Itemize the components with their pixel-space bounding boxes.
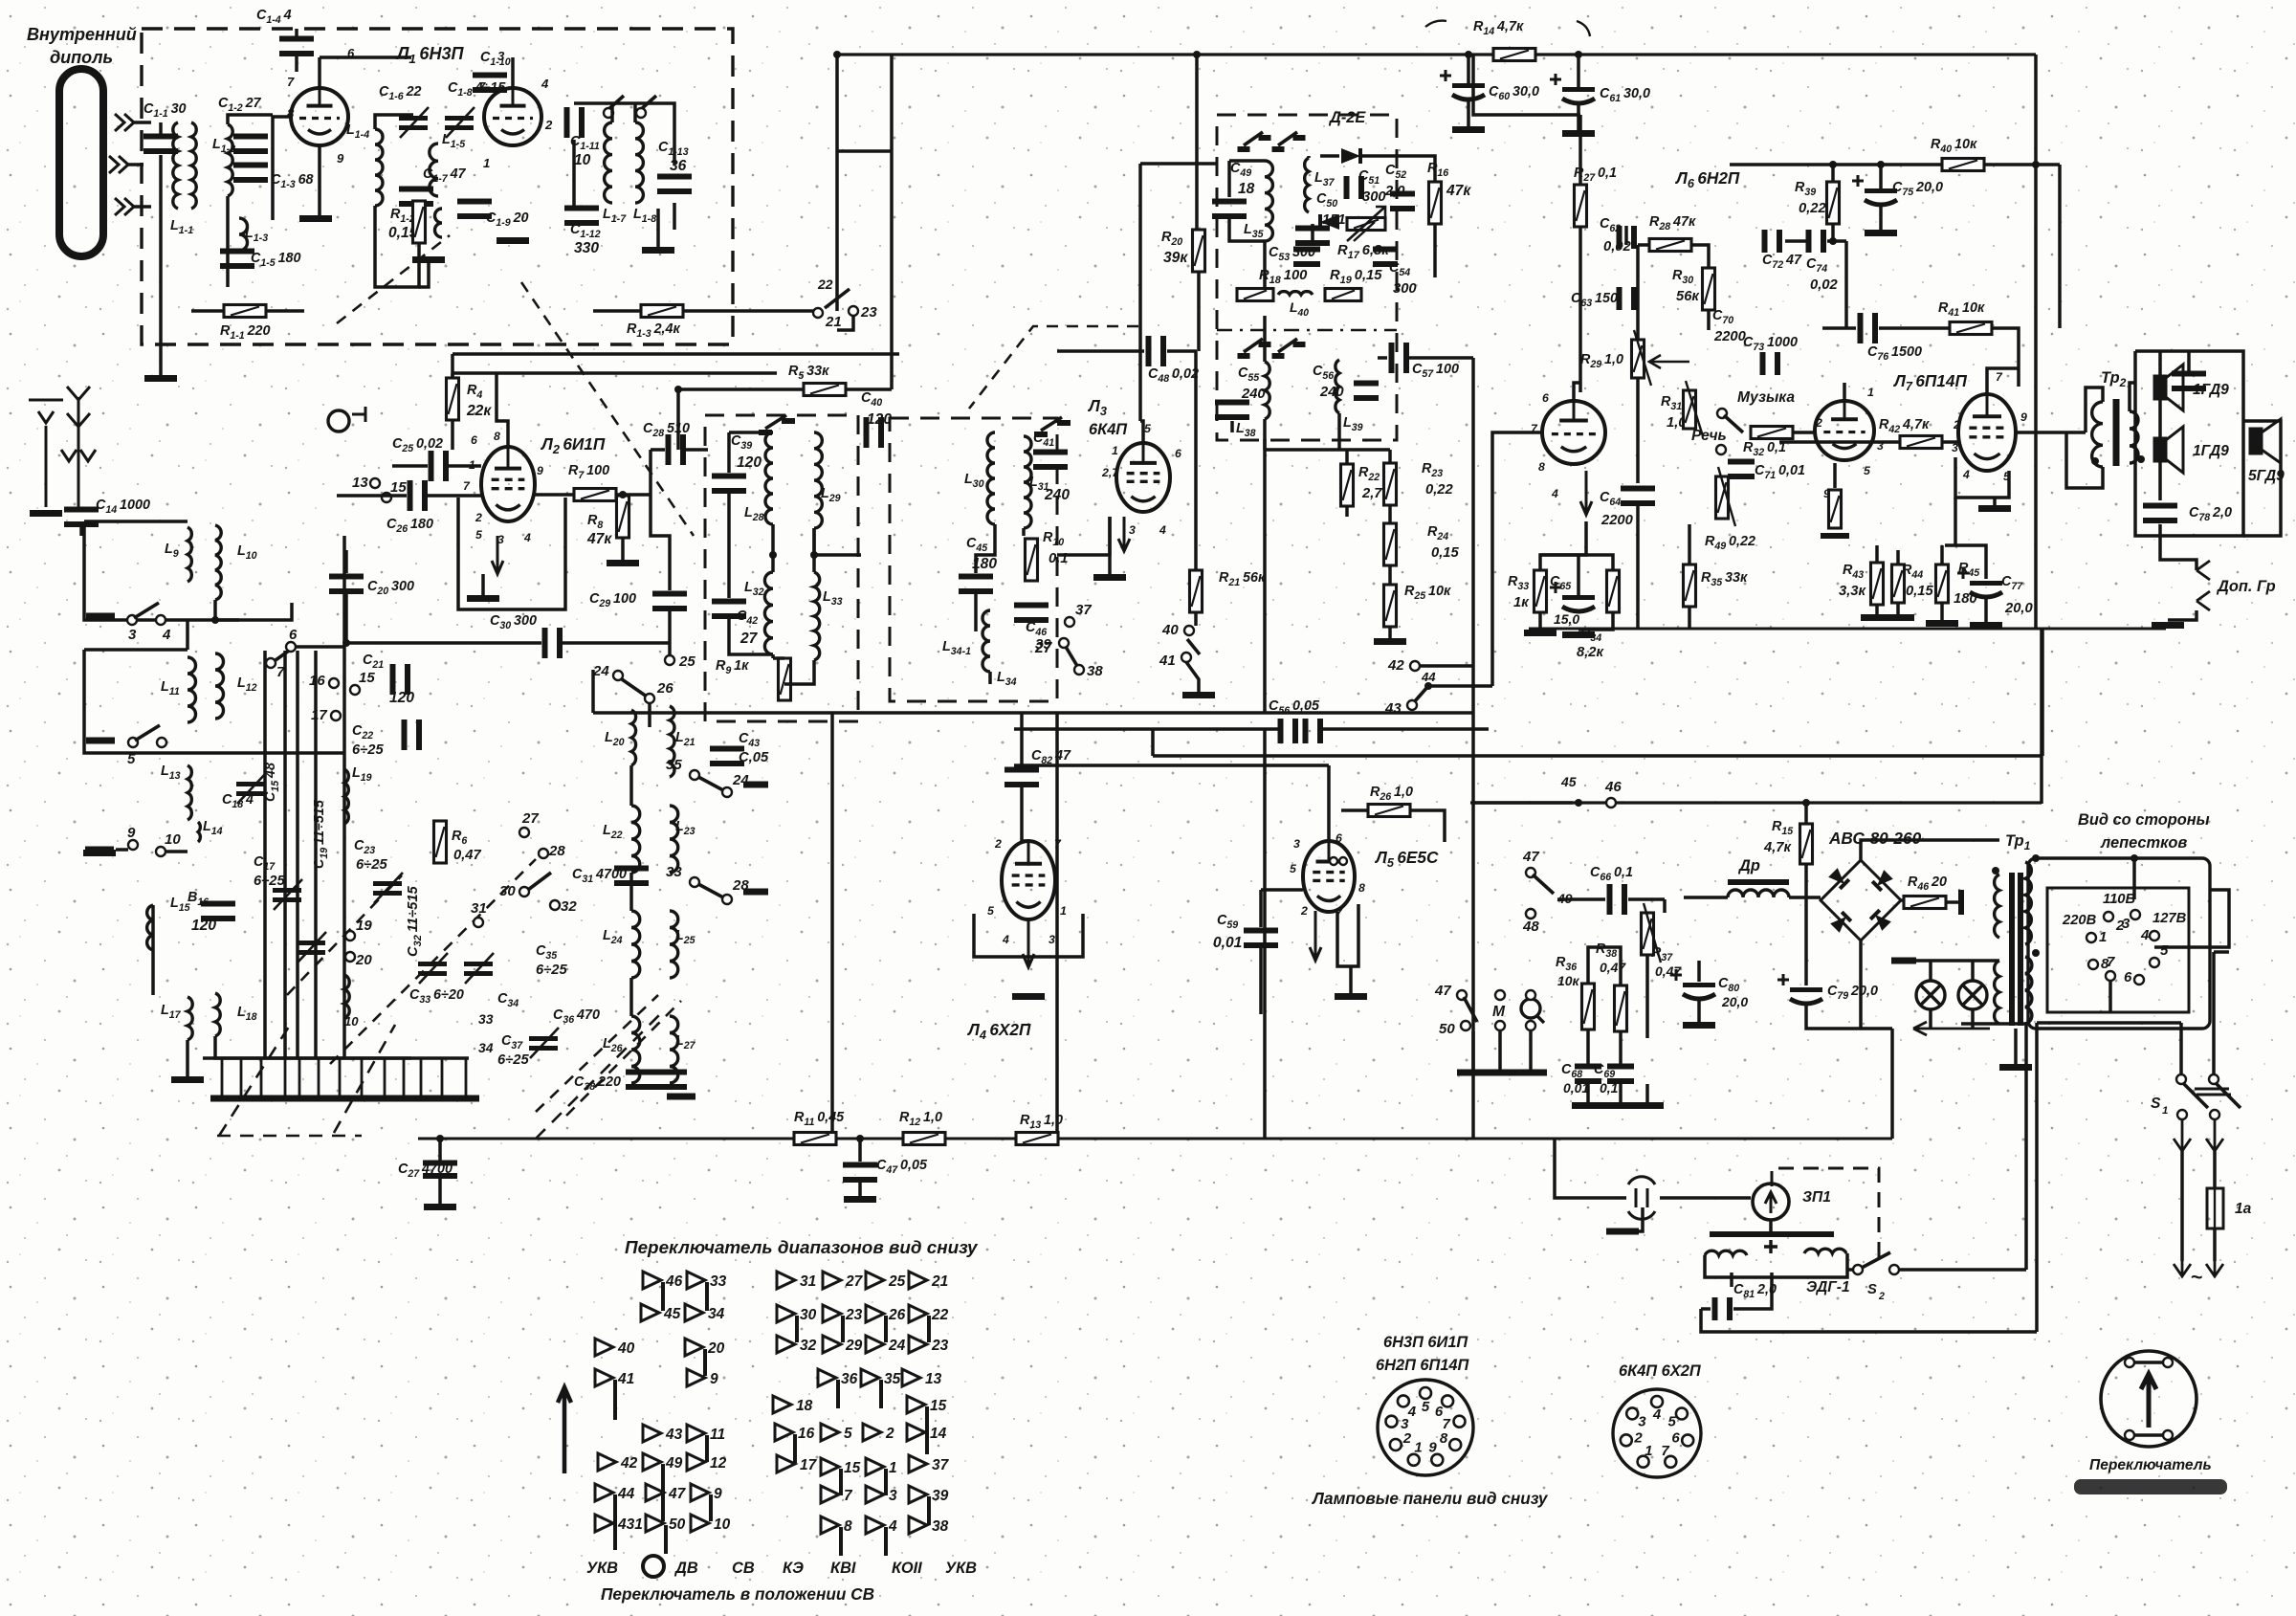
svg-text:34: 34 <box>478 1040 494 1055</box>
motor winding left <box>1705 1251 1747 1255</box>
wire R4 top link <box>453 371 497 375</box>
svg-text:49: 49 <box>665 1455 683 1472</box>
svg-text:4: 4 <box>1002 933 1009 946</box>
wire <box>134 205 151 209</box>
coil L1-8 <box>635 122 643 203</box>
svg-text:4: 4 <box>1551 487 1558 500</box>
svg-text:47: 47 <box>668 1486 687 1502</box>
svg-text:37: 37 <box>932 1457 950 1473</box>
wire x1322 upper <box>1263 439 1267 713</box>
jack socket УКВ antenna <box>328 410 349 432</box>
svg-text:50: 50 <box>1439 1021 1455 1037</box>
svg-text:26: 26 <box>656 680 673 697</box>
svg-text:Л1 6Н3П: Л1 6Н3П <box>395 44 465 66</box>
wire <box>186 1040 189 1076</box>
svg-text:АВС-80-260: АВС-80-260 <box>1828 829 1922 848</box>
capacitor C48 <box>1146 336 1152 366</box>
wire <box>1624 226 1628 245</box>
terminal 31 <box>474 918 483 927</box>
capacitor C1-3 <box>233 163 268 168</box>
switch contact 35 <box>861 1369 879 1386</box>
Тр1 secondary lower <box>2025 957 2032 1024</box>
wire <box>134 121 151 124</box>
wire <box>1879 207 1883 230</box>
wire dashed dial link <box>521 282 694 536</box>
bridge diode 2 <box>1872 870 1893 891</box>
switch contact 8 <box>821 1516 839 1534</box>
magic eye extra dots <box>1330 857 1337 865</box>
svg-text:25: 25 <box>678 653 695 670</box>
wire vertical x932 <box>890 55 894 389</box>
wire C82 to tube <box>1022 787 1028 841</box>
arrow Л4 cathode <box>1023 919 1034 967</box>
svg-text:41: 41 <box>617 1371 634 1387</box>
switch contact 29 <box>823 1336 841 1353</box>
ground antenna <box>30 510 62 517</box>
ground C69 <box>1604 1102 1637 1109</box>
extra comb stems <box>210 1096 233 1102</box>
wire <box>616 493 651 497</box>
capacitor C27 <box>423 1161 457 1166</box>
wire <box>361 1058 364 1098</box>
terminal <box>1889 1265 1899 1274</box>
wire connector right <box>2154 890 2229 947</box>
svg-text:16: 16 <box>798 1426 815 1442</box>
svg-text:15: 15 <box>844 1460 861 1476</box>
coil L1-1 primary <box>173 122 178 209</box>
wire y370 feed <box>453 352 899 356</box>
switch contact 14 <box>907 1424 925 1441</box>
wire <box>339 1058 342 1098</box>
switch contact 36 <box>818 1369 836 1386</box>
wire <box>1410 810 1445 842</box>
wire <box>1197 272 1201 351</box>
capacitor C55d <box>1215 400 1249 406</box>
socket7 pin 5 <box>1682 1434 1693 1446</box>
junction <box>2130 854 2138 862</box>
wire <box>481 574 485 595</box>
terminal <box>1717 409 1727 418</box>
switch contact 18 <box>773 1396 791 1413</box>
socket pin 1 <box>1442 1395 1453 1406</box>
coil L33 <box>814 572 820 660</box>
svg-text:4: 4 <box>523 531 531 544</box>
coil L1-5 <box>430 144 438 196</box>
svg-text:45: 45 <box>663 1306 681 1322</box>
capacitor small top <box>2172 371 2206 377</box>
terminal 28 <box>722 895 732 904</box>
wire <box>648 704 651 727</box>
svg-text:33: 33 <box>666 864 682 880</box>
svg-text:S: S <box>2151 1096 2161 1112</box>
svg-text:М: М <box>1492 1004 1506 1020</box>
wire dashed diag a <box>219 1027 289 1136</box>
terminal 46 <box>1606 798 1616 808</box>
svg-text:6÷25: 6÷25 <box>356 857 388 873</box>
wire detector bottom rail <box>1265 448 1390 452</box>
ground C47 <box>844 1196 876 1203</box>
svg-text:6÷25: 6÷25 <box>536 963 568 978</box>
wire <box>79 526 83 536</box>
svg-text:Музыка: Музыка <box>1737 389 1795 406</box>
wire <box>1896 603 1900 614</box>
svg-text:47к: 47к <box>1446 183 1471 199</box>
ground bar M2 <box>1486 1070 1514 1076</box>
resistor R24 <box>1384 523 1397 565</box>
terminal 1 <box>2086 933 2096 942</box>
wire <box>1804 803 1808 824</box>
wire x1251 down <box>1195 55 1199 230</box>
wire <box>1827 239 1846 243</box>
wire <box>451 420 454 450</box>
svg-text:1: 1 <box>1112 444 1118 457</box>
coil L30 <box>987 432 995 524</box>
wire <box>320 55 411 59</box>
svg-text:СВ: СВ <box>732 1560 755 1577</box>
smudged label напряжения сети <box>2074 1479 2227 1494</box>
coil L32 <box>764 572 773 654</box>
wire <box>651 448 665 452</box>
resistor R46 <box>1904 897 1946 909</box>
switch lever <box>1464 997 1477 1022</box>
wire <box>318 145 321 215</box>
wire <box>771 654 775 658</box>
svg-text:3: 3 <box>1129 523 1136 537</box>
wire <box>2187 351 2191 375</box>
wire <box>1229 159 1265 163</box>
wire <box>1691 245 1709 268</box>
wire anode b <box>511 57 515 88</box>
svg-text:45: 45 <box>1560 774 1577 789</box>
capacitor C31 <box>614 866 649 872</box>
wire <box>420 1058 423 1098</box>
svg-text:0,22: 0,22 <box>1425 482 1454 498</box>
coil L24 <box>631 911 640 978</box>
wire L18 bottom <box>215 1036 411 1058</box>
resistor R16 <box>1429 182 1442 224</box>
svg-text:6÷25: 6÷25 <box>254 874 286 889</box>
ground C65 <box>1562 631 1595 638</box>
wire <box>428 494 481 498</box>
tube Л3 6К4П <box>1116 443 1170 512</box>
switch lever <box>1414 686 1428 702</box>
arrow Л6a cathode <box>1580 471 1592 515</box>
junction <box>1465 51 1472 58</box>
wire <box>1259 948 1263 1014</box>
svg-text:56к: 56к <box>1676 289 1700 304</box>
capacitor C66 <box>1607 884 1613 915</box>
wire bottom bus y1190 <box>418 1138 1892 1140</box>
junction <box>2137 455 2145 463</box>
svg-text:6К4П: 6К4П <box>1089 421 1128 438</box>
svg-text:0,01: 0,01 <box>1213 935 1242 951</box>
junction <box>342 639 350 647</box>
ground C27 <box>424 1204 456 1210</box>
svg-text:240: 240 <box>1319 385 1344 400</box>
switch lever <box>2216 1083 2241 1108</box>
svg-text:6: 6 <box>1671 1430 1680 1447</box>
wire <box>1108 517 1112 574</box>
switch contact 10 <box>691 1515 709 1532</box>
electrolytic C80 <box>1683 983 1715 987</box>
symbol Q (gramophone) <box>1521 999 1540 1018</box>
svg-text:47к: 47к <box>586 531 612 547</box>
wire <box>2158 524 2162 536</box>
svg-text:2200: 2200 <box>1601 513 1634 528</box>
ground under C1-9 <box>497 237 529 244</box>
svg-text:7: 7 <box>463 479 471 493</box>
svg-text:5: 5 <box>127 751 136 767</box>
junction <box>769 551 777 559</box>
wire <box>260 1058 263 1098</box>
resistor R32 <box>1751 427 1793 439</box>
svg-text:10: 10 <box>344 1014 359 1029</box>
wire <box>1337 413 1341 450</box>
ground R8 <box>607 560 639 566</box>
wire plug to motor <box>1660 1196 1751 1200</box>
capacitor C50 <box>1295 226 1330 232</box>
capacitor C38b <box>652 1070 687 1075</box>
wire <box>1730 1273 1733 1287</box>
resistor R33 <box>1534 570 1547 612</box>
svg-text:6÷25: 6÷25 <box>352 742 385 758</box>
wire vertical x1978 <box>1890 1029 1894 1139</box>
socket pin 9 <box>1420 1387 1431 1399</box>
svg-text:4,7к: 4,7к <box>1763 840 1793 855</box>
svg-text:7: 7 <box>844 1488 853 1504</box>
wire into choke <box>1684 896 1728 899</box>
switch contact 9 <box>687 1369 705 1386</box>
svg-text:10: 10 <box>714 1516 731 1533</box>
terminal 5 <box>128 738 138 747</box>
capacitor C16 <box>201 901 235 907</box>
wire L33 down <box>784 660 814 684</box>
antenna symbol (external) <box>29 400 63 507</box>
svg-text:33: 33 <box>478 1011 494 1027</box>
svg-text:Переключатель диапазонов вид: Переключатель диапазонов вид снизу <box>625 1237 979 1257</box>
ground C75 <box>1865 230 1897 236</box>
decorative scan arcs near R14 <box>1425 21 1590 36</box>
wire S2 to frame <box>1900 1268 2026 1272</box>
coil L1-3 <box>239 218 248 251</box>
wire x2134 to psu bus <box>2040 629 2043 804</box>
terminal 27 <box>519 828 529 837</box>
wire <box>1697 961 1701 982</box>
svg-text:1: 1 <box>469 458 475 472</box>
wire <box>1955 457 2009 498</box>
wire <box>1628 897 1665 901</box>
svg-text:Л2 6И1П: Л2 6И1П <box>540 434 606 456</box>
svg-text:1к: 1к <box>1513 595 1530 610</box>
junction <box>674 386 682 393</box>
svg-text:Д-2Е: Д-2Е <box>1328 109 1366 126</box>
resistor R23 <box>1384 463 1397 505</box>
arrow Л5 cathode <box>1310 911 1321 961</box>
svg-text:7: 7 <box>287 75 295 89</box>
terminal 48 <box>1526 909 1535 919</box>
resistor R1-3 <box>641 305 683 318</box>
svg-text:1: 1 <box>1867 386 1874 399</box>
terminal 8 <box>2088 960 2098 969</box>
svg-text:220В: 220В <box>2062 913 2097 928</box>
resistor R10 <box>1026 539 1038 581</box>
switch contact 38 <box>909 1516 927 1534</box>
Тр2 core <box>2113 399 2120 466</box>
ground R33 <box>1524 630 1556 636</box>
wire R27 up <box>1578 115 1582 185</box>
wire y158 link <box>837 149 892 153</box>
bridge diode 3 <box>1830 912 1851 933</box>
wire <box>84 650 344 753</box>
wire x2128 down <box>2034 55 2038 469</box>
coil L27 <box>670 1016 678 1083</box>
wire <box>318 57 321 88</box>
svg-text:31: 31 <box>471 900 487 917</box>
wire <box>974 594 978 631</box>
wire C74 down <box>1844 241 1848 328</box>
wire <box>1688 524 1691 564</box>
terminal <box>1526 909 1535 919</box>
svg-text:7: 7 <box>1443 1416 1451 1432</box>
plug symbol <box>1628 1177 1655 1220</box>
wire vertical x2129 <box>2035 1023 2039 1332</box>
capacitor C51 <box>1344 176 1350 199</box>
ground Л5 <box>1335 993 1367 1000</box>
svg-text:7: 7 <box>2107 954 2115 970</box>
terminal <box>2125 1430 2134 1440</box>
wire <box>384 1058 386 1098</box>
wire R27 down <box>1578 227 1582 392</box>
switch contact 49 <box>643 1453 661 1471</box>
resistor R14 <box>1493 49 1535 61</box>
capacitor C1-2 plates <box>233 134 268 140</box>
terminal 32 <box>550 900 560 910</box>
wire <box>574 103 674 165</box>
wire <box>668 611 672 643</box>
svg-text:2200: 2200 <box>1713 329 1747 344</box>
svg-text:44: 44 <box>1421 670 1436 684</box>
terminal 28 <box>539 849 548 858</box>
resistor R36 <box>1582 984 1595 1029</box>
wire bridge top <box>1861 840 1999 860</box>
wire <box>1940 545 1944 564</box>
capacitor C71 <box>1728 459 1755 465</box>
capacitor C76 <box>1858 313 1864 343</box>
terminal 2 <box>2104 912 2113 921</box>
svg-text:2: 2 <box>475 511 482 524</box>
capacitor C72 <box>1762 230 1768 253</box>
svg-text:25: 25 <box>888 1273 906 1290</box>
svg-text:8: 8 <box>1440 1430 1448 1447</box>
wire <box>633 103 637 122</box>
wire x2153 upper <box>2058 165 2062 328</box>
junction <box>810 551 818 559</box>
switch diagram circle <box>643 1556 664 1577</box>
coil L1-4 <box>375 129 383 206</box>
svg-text:22: 22 <box>817 277 833 292</box>
trimmer capacitor <box>418 962 447 966</box>
capacitor C1-1 <box>143 134 178 140</box>
svg-text:Л6 6Н2П: Л6 6Н2П <box>1674 168 1740 190</box>
switch contact 7 <box>821 1486 839 1503</box>
capacitor C20 <box>329 574 364 580</box>
svg-text:12: 12 <box>710 1455 727 1472</box>
tube Л7 6П14П <box>1958 394 2016 471</box>
wire <box>1833 463 1837 488</box>
junction <box>1992 867 1999 874</box>
switch lever <box>1066 647 1077 666</box>
terminal <box>636 108 646 118</box>
svg-text:Внутренний: Внутренний <box>27 25 137 44</box>
junction <box>1802 799 1810 807</box>
wire <box>191 309 224 313</box>
svg-text:13: 13 <box>925 1371 942 1387</box>
svg-text:300: 300 <box>1393 281 1417 297</box>
capacitor C28 <box>666 434 672 465</box>
switch contact 32 <box>777 1336 795 1353</box>
terminal 16 <box>329 678 339 688</box>
svg-text:5: 5 <box>1668 1414 1677 1430</box>
wire <box>535 493 574 497</box>
coil L20 <box>631 710 636 765</box>
wire <box>2135 351 2243 536</box>
svg-text:9: 9 <box>537 464 543 477</box>
capacitor C56 0,05 a <box>1278 719 1284 743</box>
wire <box>116 848 128 852</box>
svg-text:Ламповые панели вид снизу: Ламповые панели вид снизу <box>1311 1489 1549 1508</box>
terminal <box>2177 1110 2187 1119</box>
svg-text:0,15: 0,15 <box>1431 545 1460 561</box>
capacitor C74 <box>1806 230 1812 253</box>
switch contact 33 <box>687 1272 705 1289</box>
terminal <box>2176 1074 2186 1084</box>
resistor R5 <box>804 384 846 396</box>
wire <box>1388 505 1392 523</box>
svg-text:3: 3 <box>1293 837 1300 851</box>
svg-text:31: 31 <box>800 1273 816 1290</box>
svg-text:17: 17 <box>800 1457 818 1473</box>
terminal 30 <box>519 887 529 897</box>
svg-text:Вид со стороны: Вид со стороны <box>2078 811 2210 829</box>
wire <box>1638 243 1649 247</box>
svg-text:21: 21 <box>931 1273 948 1290</box>
wire <box>1229 219 1265 241</box>
svg-text:5: 5 <box>1422 1399 1430 1415</box>
socket7 pin 6 <box>1676 1408 1688 1420</box>
trimmer capacitor <box>464 962 493 966</box>
coil L16 <box>147 905 153 950</box>
capacitor C43 <box>710 746 744 752</box>
wire <box>84 521 239 620</box>
wire <box>1822 326 1856 330</box>
svg-text:2: 2 <box>1878 1291 1885 1302</box>
record player motor ЗП1 <box>1753 1184 1789 1220</box>
svg-text:24: 24 <box>888 1338 906 1354</box>
svg-text:6: 6 <box>471 433 477 447</box>
wire R36/R38 top <box>1588 947 1621 985</box>
trimmer capacitor <box>399 116 428 121</box>
switch contact 20 <box>685 1339 703 1356</box>
svg-text:48: 48 <box>1522 919 1539 935</box>
capacitor C42 <box>712 599 746 605</box>
wire plug tap <box>1629 1207 1643 1231</box>
wire C66 to R37 <box>1663 899 1667 913</box>
terminal 4 <box>2150 931 2159 941</box>
switch lever <box>825 289 850 308</box>
capacitor C62 <box>1617 226 1623 249</box>
svg-text:30: 30 <box>800 1307 817 1323</box>
wire Tr2 prim bottom <box>2066 432 2103 488</box>
